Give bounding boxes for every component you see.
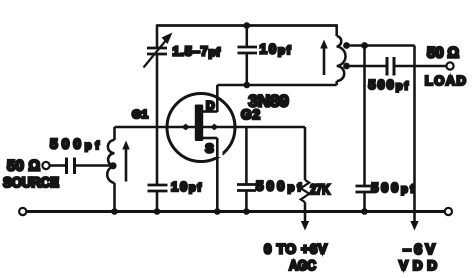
junction dot source/rail: [214, 208, 221, 215]
transistor Q1 substrate arrow right: [210, 124, 218, 131]
capacitor C6 500pf supply bypass: [356, 46, 375, 212]
wire trimmer to G1 node: [156, 54, 159, 127]
svg-text:D: D: [206, 99, 215, 113]
arrow -6V supply: [410, 221, 418, 231]
svg-text:AGC: AGC: [289, 257, 316, 273]
terminal ground left: [19, 208, 26, 215]
transistor Q1 drain stub: [203, 110, 217, 113]
capacitor C3 500pf input coupling: [50, 158, 113, 175]
junction dot coil tap 2: [343, 63, 350, 70]
svg-text:VDD: VDD: [399, 258, 437, 273]
terminal ground right: [445, 208, 452, 215]
capacitor C7 500pf output coupling: [387, 57, 446, 76]
junction dot coil to rail: [111, 208, 118, 215]
transistor Q1 source stub: [203, 137, 217, 140]
svg-text:27K: 27K: [310, 181, 330, 197]
tuning arrow input coil: [122, 141, 130, 182]
transistor Q1 gate arrow left: [182, 124, 190, 131]
svg-text:0 TO +6V: 0 TO +6V: [264, 241, 327, 256]
junction dot top rail/10pf: [244, 22, 251, 29]
capacitor C2 10pf (input bypass): [148, 127, 168, 212]
svg-text:–6V: –6V: [403, 242, 435, 258]
white halo for D label: [205, 99, 216, 110]
wire source down to rail: [216, 138, 219, 212]
terminal 50 ohm load: [446, 62, 453, 69]
junction dot C5/rail: [243, 208, 250, 215]
wire VDD feed from coil tap: [344, 44, 415, 47]
capacitor C4 10pf feedback: [238, 26, 258, 86]
junction dot drain/10pf: [244, 82, 251, 89]
svg-text:SOURCE: SOURCE: [3, 174, 59, 190]
tuning arrow output coil: [320, 40, 328, 76]
capacitor C1 trimmer 1.5-7pf: [144, 24, 173, 67]
junction dot 10pf/ground rail: [154, 208, 161, 215]
junction dot coil tap 1: [343, 42, 350, 49]
wire VDD down: [413, 46, 416, 223]
terminal 50 ohm source: [42, 162, 49, 169]
svg-text:G2: G2: [241, 107, 260, 122]
wire drain line: [217, 84, 336, 87]
junction dot C6/rail: [361, 208, 368, 215]
capacitor C5 500pf G2 bypass: [237, 127, 256, 212]
svg-text:50 Ω: 50 Ω: [427, 45, 459, 62]
wire load line from coil tap 2: [344, 65, 386, 68]
inductor L1 input coil: [107, 127, 114, 212]
junction dot bypass tee: [361, 42, 368, 49]
inductor L2 output coil: [337, 24, 346, 85]
wire top rail: [157, 24, 337, 27]
resistor R1 27K: [301, 127, 310, 231]
transistor Q1 channel bar: [195, 105, 203, 142]
svg-text:S: S: [205, 142, 213, 156]
wire gate line G1-G2: [115, 126, 306, 129]
wire ground rail: [26, 210, 444, 213]
white halo for S label: [203, 141, 223, 158]
transistor Q1 3N89 body circle: [167, 94, 235, 162]
svg-text:G1: G1: [132, 109, 149, 121]
junction dot coil tap: [109, 162, 116, 169]
wire drain up: [216, 85, 219, 112]
svg-text:50 Ω: 50 Ω: [7, 158, 40, 175]
svg-text:LOAD: LOAD: [425, 73, 466, 88]
